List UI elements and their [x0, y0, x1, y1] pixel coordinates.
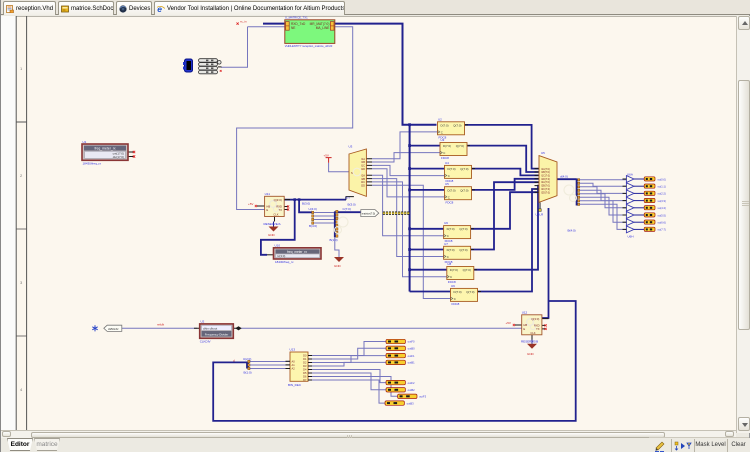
- svg-text:U5: U5: [445, 182, 449, 186]
- svg-text:U_MATRICE_TX1: U_MATRICE_TX1: [285, 15, 308, 19]
- svg-text:outF3: outF3: [419, 395, 426, 399]
- svg-text:outB0: outB0: [408, 347, 416, 351]
- svg-text:U13: U13: [290, 348, 296, 352]
- svg-text:I1B: I1B: [361, 160, 365, 164]
- svg-text:U10: U10: [275, 243, 281, 247]
- svg-text:d(-): d(-): [345, 196, 350, 200]
- svg-text:D4: D4: [303, 368, 307, 372]
- svg-text:C: C: [443, 151, 445, 155]
- svg-text:C: C: [450, 275, 452, 279]
- svg-text:Q(7:0): Q(7:0): [460, 188, 468, 192]
- svg-text:A2: A2: [292, 367, 296, 371]
- svg-text:GND: GND: [334, 264, 342, 268]
- svg-text:Q(7:0): Q(7:0): [460, 167, 468, 171]
- svg-text:div(17:0): div(17:0): [113, 155, 124, 159]
- svg-text:U6A: U6A: [627, 172, 633, 176]
- svg-text:B(1:0): B(1:0): [244, 370, 252, 374]
- svg-text:D0: D0: [303, 354, 307, 358]
- svg-text:I1D: I1D: [361, 167, 365, 171]
- svg-text:B(3:0): B(3:0): [302, 202, 310, 206]
- svg-text:Q(7:0): Q(7:0): [463, 268, 471, 272]
- svg-text:freq_meter_rx: freq_meter_rx: [287, 250, 307, 254]
- svg-text:D(7:0): D(7:0): [448, 188, 456, 192]
- svg-text:freq_meter_rx: freq_meter_rx: [94, 147, 115, 151]
- svg-text:refclk: refclk: [157, 323, 165, 327]
- svg-text:Q(7:0): Q(7:0): [459, 227, 467, 231]
- svg-text:matrice(7:0): matrice(7:0): [362, 212, 376, 215]
- svg-text:U11: U11: [265, 192, 271, 196]
- svg-text:d(4:0): d(4:0): [560, 174, 568, 178]
- svg-text:U7: U7: [444, 242, 448, 246]
- svg-text:outF2: outF2: [408, 381, 415, 385]
- svg-text:D3: D3: [303, 364, 307, 368]
- svg-text:D5: D5: [303, 371, 307, 375]
- svg-text:C: C: [447, 255, 449, 259]
- svg-text:su(4:4): su(4:4): [658, 206, 666, 210]
- svg-text:Q(7:0): Q(7:0): [456, 144, 464, 148]
- svg-text:U5: U5: [541, 151, 545, 155]
- svg-text:B(4:0): B(4:0): [568, 229, 576, 233]
- svg-text:U6: U6: [444, 221, 448, 225]
- svg-text:su(0:0): su(0:0): [658, 177, 666, 181]
- svg-text:su(7:7): su(7:7): [658, 228, 666, 232]
- svg-text:C: C: [448, 195, 450, 199]
- svg-text:U3: U3: [349, 145, 353, 149]
- svg-text:rx(3:0): rx(3:0): [277, 254, 285, 258]
- svg-text:outF0: outF0: [408, 340, 415, 344]
- svg-text:Q(7:0): Q(7:0): [466, 290, 474, 294]
- svg-text:su(3:3): su(3:3): [658, 199, 666, 203]
- svg-text:S: S: [351, 171, 353, 175]
- svg-text:rx_in: rx_in: [240, 20, 247, 24]
- svg-text:U8: U8: [447, 262, 451, 266]
- svg-text:D(7:0): D(7:0): [454, 290, 462, 294]
- svg-text:U(4:0): U(4:0): [309, 207, 317, 211]
- svg-text:U3: U3: [441, 138, 445, 142]
- svg-text:+5V: +5V: [506, 321, 511, 325]
- svg-text:U9: U9: [451, 284, 455, 288]
- svg-text:Q(7:0): Q(7:0): [459, 248, 467, 252]
- svg-text:RESERVE/B: RESERVE/B: [521, 340, 538, 344]
- svg-text:U6H: U6H: [628, 235, 634, 239]
- svg-text:U(2:0): U(2:0): [243, 357, 251, 361]
- svg-text:Q(3:0): Q(3:0): [531, 317, 539, 321]
- svg-text:B(1:0): B(1:0): [330, 238, 338, 242]
- svg-text:su(2:2): su(2:2): [658, 192, 666, 196]
- svg-text:D(7:0): D(7:0): [448, 167, 456, 171]
- svg-text:Q(7:0): Q(7:0): [453, 123, 461, 127]
- svg-text:su(1:1): su(1:1): [658, 185, 666, 189]
- svg-text:A1: A1: [292, 363, 296, 367]
- svg-text:E: E: [523, 327, 525, 331]
- svg-text:U12: U12: [522, 311, 528, 315]
- svg-text:FDC8: FDC8: [441, 156, 449, 160]
- svg-text:FDC8: FDC8: [452, 302, 460, 306]
- svg-text:C: C: [454, 297, 456, 301]
- svg-text:clk50mhz: clk50mhz: [108, 328, 119, 331]
- svg-text:BIN_DEC: BIN_DEC: [288, 383, 302, 387]
- svg-text:CLK: CLK: [530, 331, 535, 335]
- svg-text:GND: GND: [527, 352, 535, 356]
- svg-text:MA_LINE: MA_LINE: [316, 26, 330, 30]
- svg-text:HB: HB: [523, 323, 527, 327]
- svg-text:VHDLENTITY reception_matrice_u: VHDLENTITY reception_matrice_u0/U0: [285, 44, 333, 48]
- svg-text:I2D(7:0): I2D(7:0): [541, 191, 550, 194]
- svg-text:D7: D7: [303, 378, 307, 382]
- svg-text:1: 1: [20, 66, 23, 71]
- svg-text:D1: D1: [303, 357, 307, 361]
- svg-text:2: 2: [20, 173, 23, 178]
- svg-text:D(7:0): D(7:0): [450, 268, 458, 272]
- svg-text:4: 4: [20, 387, 23, 392]
- svg-text:HB: HB: [266, 204, 270, 208]
- svg-text:+5V: +5V: [324, 153, 329, 157]
- svg-text:C: C: [447, 234, 449, 238]
- svg-text:CLK: CLK: [273, 212, 278, 216]
- svg-text:C: C: [441, 130, 443, 134]
- svg-text:D(7:0): D(7:0): [443, 144, 451, 148]
- svg-text:outB3: outB3: [407, 401, 415, 405]
- svg-text:B(4:0): B(4:0): [309, 224, 317, 228]
- svg-text:I2C: I2C: [361, 180, 365, 184]
- svg-text:FDC8: FDC8: [446, 200, 454, 204]
- svg-text:3: 3: [20, 280, 23, 285]
- svg-text:U2: U2: [201, 320, 205, 324]
- svg-text:outF1: outF1: [408, 354, 415, 358]
- svg-text:D(7:0): D(7:0): [447, 248, 455, 252]
- svg-text:TX: TX: [279, 208, 283, 212]
- svg-text:D(7:0): D(7:0): [447, 227, 455, 231]
- svg-text:RESERVE/A: RESERVE/A: [264, 222, 281, 226]
- svg-text:U5LR: U5LR: [536, 212, 545, 216]
- svg-text:+5V: +5V: [248, 202, 253, 206]
- svg-text:CLKDIV: CLKDIV: [200, 339, 211, 343]
- svg-text:U4: U4: [445, 161, 449, 165]
- svg-text:A0: A0: [292, 359, 296, 363]
- svg-text:Q(3:0): Q(3:0): [274, 198, 282, 202]
- svg-text:18430/freq_rx: 18430/freq_rx: [275, 260, 294, 264]
- svg-text:D(7:0): D(7:0): [441, 123, 449, 127]
- svg-text:I2D: I2D: [361, 184, 365, 188]
- svg-text:Frequency Divider: Frequency Divider: [205, 332, 228, 336]
- svg-text:E: E: [266, 208, 268, 212]
- svg-text:outB2: outB2: [408, 388, 416, 392]
- svg-text:su(6:6): su(6:6): [658, 221, 666, 225]
- svg-text:D6: D6: [303, 375, 307, 379]
- svg-text:U1: U1: [83, 140, 87, 144]
- svg-text:TX: TX: [536, 327, 540, 331]
- svg-text:U2: U2: [438, 117, 442, 121]
- svg-text:RXD: RXD: [276, 205, 282, 209]
- svg-text:GND: GND: [268, 233, 276, 237]
- svg-text:outB1: outB1: [408, 361, 416, 365]
- svg-text:NE: NE: [291, 26, 295, 30]
- svg-text:RXD: RXD: [534, 323, 540, 327]
- svg-text:clkin clkout: clkin clkout: [203, 326, 217, 330]
- svg-text:D2: D2: [303, 361, 307, 365]
- svg-text:su(5:5): su(5:5): [658, 213, 666, 217]
- svg-text:18430/freq_rx: 18430/freq_rx: [83, 161, 102, 165]
- svg-text:C(7:0): C(7:0): [343, 207, 351, 211]
- svg-text:C: C: [448, 174, 450, 178]
